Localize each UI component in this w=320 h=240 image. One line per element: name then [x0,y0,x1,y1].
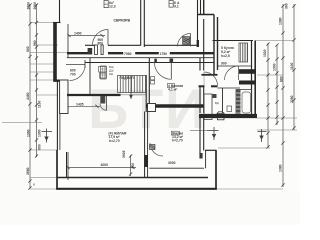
svg-text:4,1 м²: 4,1 м² [168,88,178,92]
svg-text:1520: 1520 [263,49,267,57]
svg-text:2000: 2000 [33,2,37,10]
svg-text:h=2,5: h=2,5 [221,54,230,58]
svg-text:1300: 1300 [273,63,277,71]
svg-text:600: 600 [37,144,41,150]
svg-text:3680: 3680 [26,167,30,175]
svg-text:ПОДВАЛ: ПОДВАЛ [120,76,135,80]
svg-text:1380: 1380 [279,17,283,25]
svg-text:СЕРКОРВ: СЕРКОРВ [114,19,131,23]
svg-text:КШ: КШ [109,72,114,76]
svg-text:3000: 3000 [27,2,31,10]
svg-text:h=2,70: h=2,70 [109,139,120,143]
svg-text:700: 700 [70,73,76,77]
svg-text:9,1: 9,1 [174,4,179,8]
svg-text:ВД: ВД [215,101,219,105]
svg-text:В: В [33,183,35,187]
svg-text:3926: 3926 [122,150,126,158]
svg-text:800: 800 [98,42,104,46]
svg-text:900: 900 [221,62,227,66]
svg-text:2280: 2280 [290,95,294,103]
svg-text:h=2,70: h=2,70 [172,139,183,143]
svg-text:1300: 1300 [37,129,41,137]
svg-text:12,3: 12,3 [109,5,116,9]
svg-text:7980: 7980 [124,52,132,56]
svg-text:600: 600 [26,46,30,52]
svg-text:1400: 1400 [74,32,82,36]
svg-text:1100: 1100 [37,101,41,108]
svg-text:3000: 3000 [168,161,176,165]
svg-text:4460: 4460 [26,92,30,100]
svg-text:1750: 1750 [160,52,168,56]
svg-text:4000: 4000 [101,163,109,167]
svg-text:980: 980 [33,40,37,46]
svg-text:300: 300 [285,3,289,9]
svg-text:1435: 1435 [76,103,84,107]
svg-text:1300: 1300 [26,129,30,137]
svg-text:900: 900 [131,163,135,169]
svg-text:1380: 1380 [279,164,283,172]
svg-text:1100: 1100 [290,63,294,70]
svg-text:860: 860 [280,76,284,82]
